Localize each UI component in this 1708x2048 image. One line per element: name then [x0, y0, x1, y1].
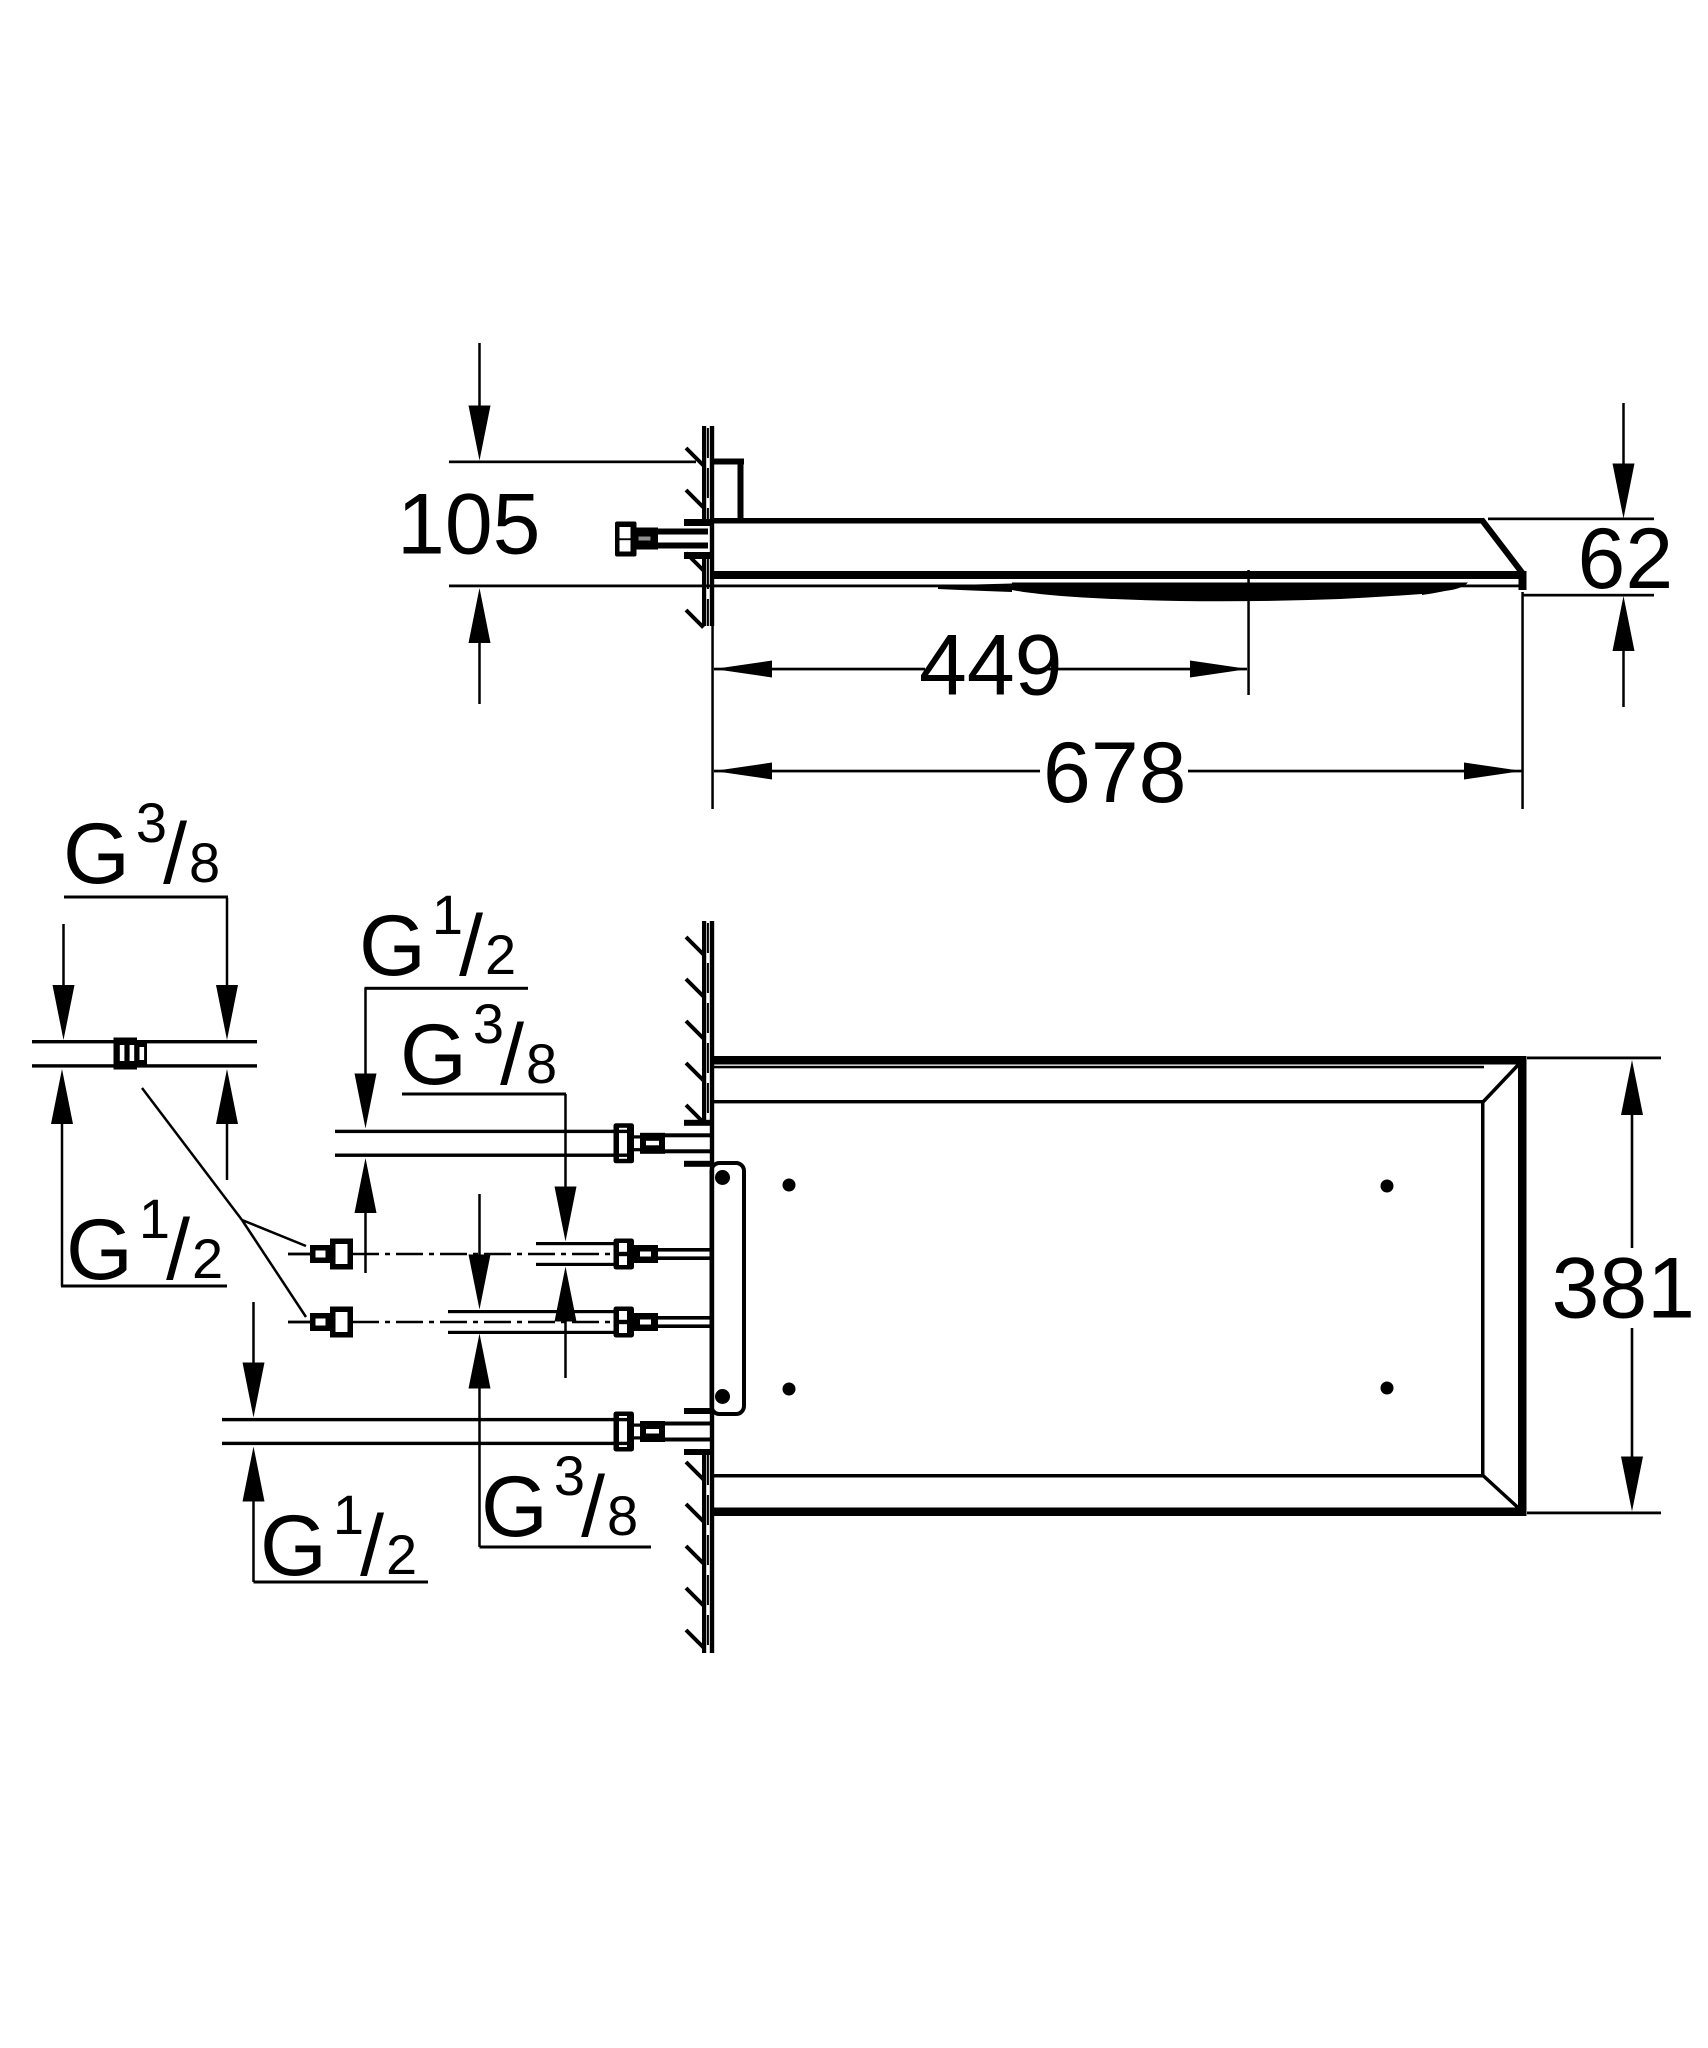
wall (plan view)	[702, 921, 714, 1653]
svg-text:381: 381	[1552, 1241, 1696, 1337]
label G3/8 (middle)	[400, 992, 557, 1103]
wall hatching (side view)	[686, 448, 704, 628]
mounting plate (plan view)	[712, 1163, 745, 1414]
wall (side view)	[702, 426, 714, 626]
label G3/8 (middle) arrows	[555, 1094, 577, 1378]
shower plate inner face top line (plan view)	[713, 1100, 1485, 1103]
label G1/2 (top-middle) underline	[365, 987, 529, 990]
dim 62 text	[1578, 511, 1674, 607]
label G3/8 (top-left)	[63, 791, 220, 902]
svg-text:62: 62	[1578, 511, 1674, 607]
label G1/2 (bottom-left) underline	[254, 1581, 429, 1584]
shower plate top edge (plan view)	[713, 1056, 1527, 1068]
shower plate inner face right line (plan view)	[1481, 1100, 1485, 1478]
dim 62 arrows	[1613, 403, 1635, 707]
wall sleeve stubs (side view)	[684, 519, 713, 559]
wall hatching (plan view)	[686, 937, 704, 1648]
detail hose (top-left)	[32, 1040, 257, 1068]
screw hole top-left (plan view)	[783, 1179, 796, 1192]
supply pipe row 3 G3/8 (plan view)	[288, 1307, 713, 1338]
screw collar (side view)	[636, 528, 658, 550]
label G3/8 (top-left) underline	[64, 896, 228, 899]
screw head (side view)	[615, 522, 637, 557]
label G1/2 (far-left) underline	[61, 1285, 227, 1288]
dim 381 top reference line	[1527, 1057, 1661, 1060]
supply pipe row 1 G1/2 (plan view)	[335, 1120, 713, 1167]
dim 678 line and arrows	[714, 763, 1522, 780]
dim 381 line and arrows	[1621, 1060, 1643, 1512]
svg-text:105: 105	[397, 477, 541, 573]
dim 678 text	[1043, 725, 1187, 821]
detail hose nut (top-left)	[114, 1038, 148, 1070]
shower plate bottom-right bevel line	[1483, 1476, 1522, 1512]
label G3/8 (top-left) arrows	[53, 898, 239, 1040]
dim 678 extension line right	[1521, 592, 1524, 809]
supply pipe row 4 G1/2 (plan view)	[222, 1408, 713, 1455]
shower head chamfer edge (side view)	[1482, 520, 1524, 575]
dim 449 extension line right	[1247, 570, 1250, 695]
shower head right end cap (side view)	[1519, 571, 1527, 590]
shower plate top-right bevel line	[1483, 1061, 1522, 1103]
spray plate line (side view)	[449, 585, 1519, 588]
shower head bottom edge (side view)	[710, 571, 1523, 579]
supply pipe row 2 G3/8 (plan view)	[288, 1239, 713, 1270]
screw hole bottom-left (plan view)	[783, 1383, 796, 1396]
shower head body top edge (side view)	[710, 518, 1484, 524]
shower plate bottom edge (plan view)	[713, 1508, 1527, 1517]
leader line to G1/2 connectors	[142, 1088, 306, 1317]
label G1/2 (far-left)	[66, 1187, 223, 1298]
screw hole bottom-right (plan view)	[1381, 1382, 1394, 1395]
dim 105 top reference line	[449, 461, 696, 464]
dim 62 top reference line	[1488, 518, 1654, 521]
label G3/8 (bottom-middle) underline	[480, 1546, 652, 1549]
svg-text:449: 449	[919, 618, 1063, 714]
dim 449 line and arrows	[714, 661, 1248, 678]
label G3/8 (middle) underline	[402, 1093, 566, 1096]
shower plate inner face bottom line (plan view)	[713, 1474, 1485, 1478]
mounting bracket (side view)	[714, 459, 744, 519]
screw hole top-right (plan view)	[1381, 1180, 1394, 1193]
dim 381 text	[1552, 1241, 1696, 1337]
dim 62 bottom reference line	[1522, 594, 1654, 597]
label G1/2 (bottom-left) arrows	[243, 1302, 265, 1582]
svg-text:678: 678	[1043, 725, 1187, 821]
dim 381 bottom reference line	[1527, 1512, 1661, 1515]
label G1/2 (top-middle) arrows	[355, 988, 377, 1273]
label G1/2 (far-left) arrows	[51, 1069, 238, 1286]
spray nozzle band (side view)	[938, 583, 1468, 602]
label G1/2 (bottom-left)	[260, 1483, 417, 1594]
label G3/8 (bottom-middle) arrows	[469, 1194, 491, 1547]
dim 105 text	[397, 477, 541, 573]
label G3/8 (bottom-middle)	[481, 1444, 638, 1555]
dim 449 text	[919, 618, 1063, 714]
dim 105 arrows	[469, 343, 491, 704]
shower plate right edge (plan view)	[1518, 1056, 1527, 1516]
screw shaft (side view)	[656, 529, 708, 549]
dim extension line left (449/678)	[711, 626, 714, 809]
label G1/2 (top-middle)	[359, 883, 516, 994]
